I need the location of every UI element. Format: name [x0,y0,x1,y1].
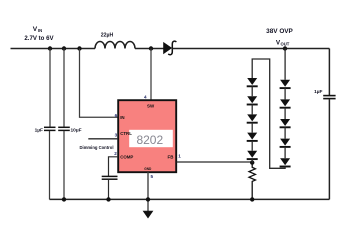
svg-text:1µF: 1µF [314,89,322,95]
wire bottom ground rail [50,198,330,200]
svg-text:4: 4 [144,95,147,100]
svg-text:FB: FB [168,154,174,159]
node dot top rail x64 [62,46,66,50]
node dot bottom rail x252 [250,197,254,201]
wire inductor to diode [135,48,164,50]
wire left string bottom to FB node [251,159,253,163]
node dot VOUT LED junction [283,46,287,50]
svg-text:IN: IN [120,115,124,120]
node dot SW junction [149,46,153,50]
svg-text:CTRL: CTRL [120,131,132,136]
LED D7 [247,78,258,86]
wire SW pin from rail [150,49,152,101]
node dot bottom rail x108.5 [106,197,110,201]
label 38V OVP / VOUT [266,28,293,47]
svg-text:2: 2 [114,151,117,156]
svg-text:SW: SW [147,104,155,109]
diode D1 schottky [164,41,177,55]
wire cap C2 lower [63,131,65,200]
inductor L1 22uH [95,33,135,49]
capacitor C1 1uF [35,127,56,133]
LED D10 [247,123,258,141]
LED D2 [280,80,291,88]
svg-text:GND: GND [144,167,152,171]
svg-text:Dimming Control: Dimming Control [80,145,114,150]
node dot bottom rail x64 [62,197,66,201]
wire right string bottom U link [252,59,285,168]
wire CTRL dimming control [88,138,118,140]
wire top input rail [11,48,96,50]
resistor R1 [249,163,255,200]
node dot FB junction [250,160,254,164]
wire diode to output corner [172,48,329,50]
LED D4 [280,108,291,128]
wire VOUT to right LED string [284,49,286,80]
label VIN [24,26,54,42]
LED D3 [280,88,291,108]
LED D8 [247,86,258,104]
wire cap C1 lower [49,131,51,200]
svg-text:2.7V to 6V: 2.7V to 6V [24,35,54,42]
svg-text:8202: 8202 [136,133,163,147]
LED D5 [280,127,291,147]
node dot top rail x50 [48,46,52,50]
wire IN pin from rail [80,49,119,118]
wire GND pin down [147,172,149,212]
wire COMP pin [109,157,119,176]
svg-text:3: 3 [115,133,118,138]
ground symbol [143,211,153,218]
svg-text:6: 6 [115,113,118,118]
wire comp cap to ground rail [108,180,110,200]
svg-text:1µF: 1µF [35,128,43,134]
svg-text:COMP: COMP [120,154,133,159]
capacitor C2 10uF [58,127,81,133]
svg-text:5: 5 [151,174,154,179]
LED D6 [280,147,291,167]
LED D11 [247,141,258,159]
node dot top rail x79.5 [77,46,81,50]
svg-text:OUT: OUT [281,42,290,47]
wire cap C1 upper [49,49,51,127]
svg-text:22µH: 22µH [101,33,114,39]
node dot bottom rail x148 [146,197,150,201]
wire output cap to ground rail [328,99,330,199]
svg-text:IN: IN [38,28,42,33]
wire FB to LED string [177,161,253,163]
wire cap C2 upper [63,49,65,127]
svg-text:38V OVP: 38V OVP [266,28,293,35]
capacitor C3 comp [102,176,118,179]
svg-text:10µF: 10µF [71,128,82,134]
LED D9 [247,105,258,123]
IC U1 8202 body [118,100,176,172]
svg-text:1: 1 [178,154,181,159]
capacitor C4 1uF output [314,89,335,99]
wire output cap branch [328,49,330,96]
